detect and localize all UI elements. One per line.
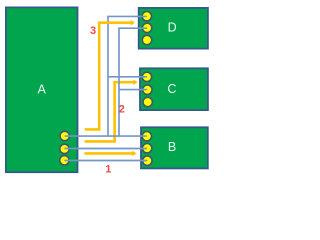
svg-text:1: 1 [105, 164, 111, 176]
svg-text:2: 2 [119, 104, 125, 116]
svg-text:B: B [168, 140, 176, 154]
svg-text:A: A [38, 83, 47, 97]
svg-text:C: C [167, 82, 176, 96]
svg-text:3: 3 [90, 25, 96, 37]
svg-text:D: D [168, 20, 177, 34]
